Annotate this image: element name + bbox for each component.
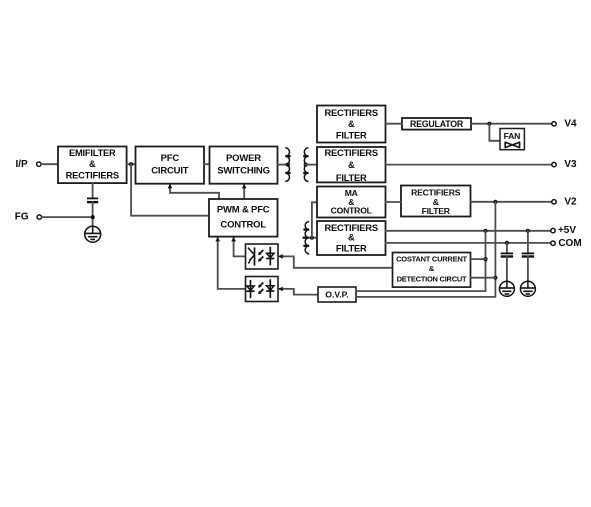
block MA & CONTROL <box>317 187 386 218</box>
terminal COM <box>551 241 555 245</box>
wire +5V to capacitor C2 <box>527 231 529 254</box>
block PFC CIRCUIT <box>136 147 205 184</box>
arrowhead into PWM control b <box>215 237 220 242</box>
block RECTIFIERS & FILTER (V4) <box>317 106 386 143</box>
arrowhead into optocoupler U1 <box>278 254 283 259</box>
label V3 label <box>564 159 577 170</box>
svg-text:EMIFILTER: EMIFILTER <box>69 148 116 158</box>
wire T2 tap up to MA control <box>312 202 317 237</box>
junction T2 tap node <box>310 236 314 240</box>
svg-text:DETECTION CIRCUT: DETECTION CIRCUT <box>397 275 467 284</box>
junction sense node b <box>493 276 497 280</box>
svg-text:RECTIFIERS: RECTIFIERS <box>325 223 378 233</box>
wire T1 secondary to rectifiers V3 <box>306 164 317 166</box>
block REGULATOR <box>402 118 471 130</box>
capacitor C-line-to-FG <box>87 198 98 202</box>
label COM label <box>558 238 581 249</box>
block RECTIFIERS & FILTER (V2) <box>401 186 471 217</box>
block FAN <box>500 129 524 150</box>
wire capacitor C2 to earth <box>527 257 529 282</box>
wire FG to earth node <box>42 216 93 218</box>
svg-text:&: & <box>89 159 96 169</box>
block O.V.P. <box>318 287 356 302</box>
svg-text:V2: V2 <box>564 196 577 207</box>
block RECTIFIERS & FILTER (V3) <box>317 147 386 182</box>
wire rectifiers V2 to V2 terminal <box>471 201 552 203</box>
svg-text:&: & <box>429 264 435 273</box>
junction sense node a <box>483 257 487 261</box>
svg-text:FILTER: FILTER <box>336 173 367 183</box>
wire optocoupler U2 to OVP <box>280 289 318 295</box>
label RECTIFIERS & FILTER (V3) <box>325 148 378 183</box>
wire OVP to V2 sense <box>356 202 495 297</box>
label RECTIFIERS & FILTER (V4) <box>325 108 378 141</box>
wire regulator to V4 <box>471 123 552 125</box>
block RECTIFIERS & FILTER (+5V) <box>317 221 386 255</box>
svg-text:PWM & PFC: PWM & PFC <box>217 205 270 216</box>
svg-text:FG: FG <box>15 212 29 223</box>
label REGULATOR <box>410 119 464 129</box>
core tick T1 secondary lower <box>303 172 308 174</box>
core tick T2 upper <box>303 228 309 230</box>
svg-text:FILTER: FILTER <box>336 243 367 253</box>
core tick T1 secondary upper <box>303 155 308 157</box>
optocoupler U2 internals <box>246 279 274 298</box>
terminal label I/P <box>16 159 29 170</box>
earth ground FG protective earth <box>85 226 101 242</box>
svg-text:POWER: POWER <box>226 153 261 164</box>
arrowhead into PWM control a <box>231 237 236 242</box>
terminal V3 <box>552 162 556 166</box>
transformer T1 primary winding <box>285 148 289 182</box>
junction FG node <box>91 215 95 219</box>
block EMI FILTER & RECTIFIERS <box>58 147 127 184</box>
terminal V2 <box>552 200 556 204</box>
earth ground earth ground C2 <box>520 281 535 296</box>
wire rectifiers V3 to V3 terminal <box>386 164 552 166</box>
core tick T2 lower <box>303 245 309 247</box>
wire rectifiers +5V line <box>386 230 551 232</box>
svg-text:SWITCHING: SWITCHING <box>217 165 270 176</box>
svg-text:CONTROL: CONTROL <box>220 220 266 231</box>
svg-text:CONTROL: CONTROL <box>331 205 372 215</box>
arrowhead into power switching <box>242 184 247 189</box>
wire EMI to PFC <box>127 163 136 165</box>
wire PWM to optocoupler U2 <box>218 239 246 289</box>
wire PWM to optocoupler U1 <box>234 239 246 257</box>
block optocoupler U1 <box>246 244 279 269</box>
transformer T1 secondary winding <box>304 148 308 182</box>
label EMI FILTER & RECTIFIERS <box>66 148 119 180</box>
svg-text:FILTER: FILTER <box>422 206 451 216</box>
wire EMI bottom to capacitor <box>92 183 94 198</box>
svg-text:V3: V3 <box>564 159 577 170</box>
transformer T2 secondary winding <box>305 221 309 253</box>
svg-text:FILTER: FILTER <box>336 130 367 140</box>
svg-text:&: & <box>348 160 355 170</box>
wire COM line <box>386 242 551 244</box>
svg-text:CIRCUIT: CIRCUIT <box>151 165 189 176</box>
label O.V.P. label <box>325 290 348 300</box>
svg-text:RECTIFIERS: RECTIFIERS <box>325 108 378 118</box>
capacitor C2 output capacitor <box>522 253 534 256</box>
terminal +5V <box>551 228 555 232</box>
wire constant current out a <box>471 258 486 260</box>
svg-text:COM: COM <box>558 238 581 249</box>
capacitor C1 output capacitor <box>501 253 513 256</box>
label FAN <box>504 131 521 141</box>
svg-text:&: & <box>348 233 355 243</box>
svg-text:PFC: PFC <box>161 153 180 164</box>
label RECTIFIERS & FILTER (V2) <box>411 188 461 216</box>
wire COM to capacitor C1 <box>506 243 508 254</box>
block POWER SWITCHING <box>210 147 278 184</box>
block CONSTANT CURRENT & DETECTION CIRCUIT <box>393 253 471 288</box>
earth ground earth ground C1 <box>499 281 514 296</box>
label POWER SWITCHING <box>217 153 270 176</box>
junction T1 primary tap <box>286 163 290 167</box>
label V2 label <box>564 196 577 207</box>
core tick T1 primary lower <box>285 172 290 174</box>
wire capacitor C1 to earth <box>506 257 508 282</box>
svg-text:FAN: FAN <box>504 131 521 141</box>
wire branch to fan <box>489 124 500 141</box>
junction V2 sense node <box>493 200 497 204</box>
svg-text:V4: V4 <box>564 118 577 129</box>
svg-text:+5V: +5V <box>558 225 576 236</box>
wire MA control to rectifiers V2 <box>386 201 402 203</box>
core tick T2 tap dash <box>303 237 310 239</box>
wire power switching to T1 primary tap <box>278 164 288 166</box>
junction +5V node b <box>526 229 530 233</box>
label MA & CONTROL <box>331 188 372 215</box>
arrowhead into PFC circuit <box>168 184 173 189</box>
terminal label FG <box>15 212 29 223</box>
junction fan branch node <box>487 122 491 126</box>
wire EMI node down to PWM control <box>131 164 209 216</box>
label PWM & PFC CONTROL <box>217 205 270 231</box>
arrowhead into optocoupler U2 <box>278 287 283 292</box>
junction COM node <box>505 241 509 245</box>
svg-text:REGULATOR: REGULATOR <box>410 119 464 129</box>
label +5V label <box>558 225 576 236</box>
label PFC CIRCUIT <box>151 153 189 176</box>
label RECTIFIERS & FILTER (+5V) <box>325 223 378 254</box>
optocoupler U1 internals <box>246 247 275 266</box>
label CONSTANT CURRENT & DETECTION CIRCUIT <box>396 255 467 284</box>
junction T1 secondary tap <box>304 163 308 167</box>
wire optocoupler U1 to constant current circuit <box>280 256 393 267</box>
core tick T1 primary upper <box>285 155 290 157</box>
wire capacitor to FG node <box>92 202 94 226</box>
junction node after EMI <box>129 162 133 166</box>
terminal V4 <box>552 122 556 126</box>
wire I/P to EMI filter <box>41 163 58 165</box>
label V4 label <box>564 118 577 129</box>
block optocoupler U2 <box>246 277 279 302</box>
svg-text:COSTANT CURRENT: COSTANT CURRENT <box>396 255 467 264</box>
wire T2 tap to rectifiers +5V <box>309 237 317 239</box>
wire constant current out b <box>471 277 496 279</box>
terminal FG <box>37 215 41 219</box>
svg-text:&: & <box>348 119 355 129</box>
svg-text:RECTIFIERS: RECTIFIERS <box>66 171 119 181</box>
wire PWM to PFC feedback <box>170 186 219 200</box>
wire OVP to +5V sense <box>356 231 486 291</box>
block PWM & PFC CONTROL <box>209 199 278 237</box>
wire PWM to power switching feedback <box>243 186 245 200</box>
wire PFC to POWER SWITCHING <box>204 163 210 165</box>
wire rectifiers V4 to regulator <box>386 123 403 125</box>
svg-text:I/P: I/P <box>16 159 29 170</box>
svg-text:RECTIFIERS: RECTIFIERS <box>325 148 378 158</box>
fan icon <box>505 142 519 147</box>
svg-text:O.V.P.: O.V.P. <box>325 290 348 300</box>
junction +5V node a <box>483 229 487 233</box>
terminal I/P <box>37 162 41 166</box>
